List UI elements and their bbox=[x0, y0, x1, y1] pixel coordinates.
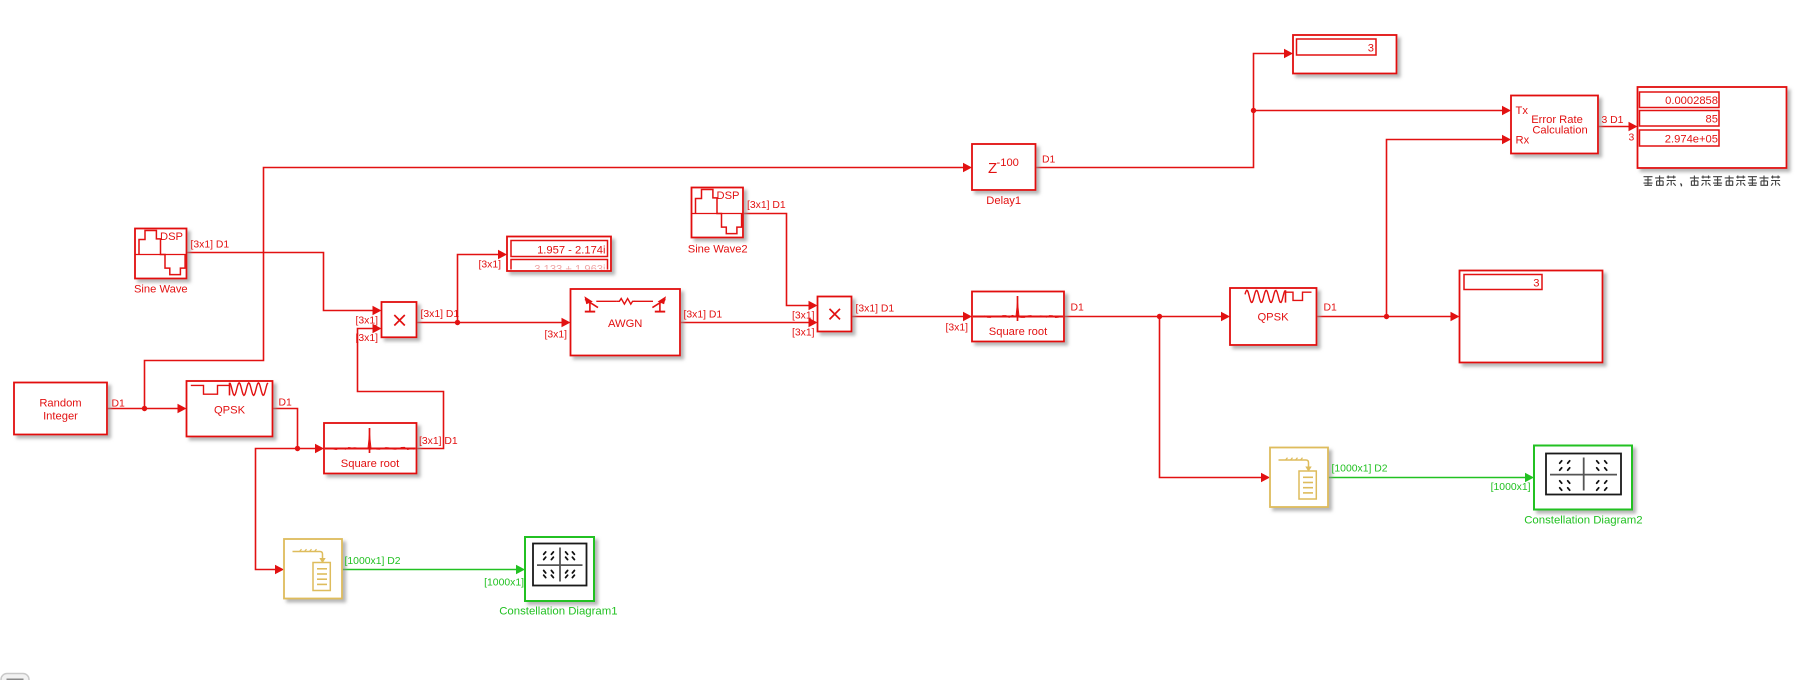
svg-text:[3x1] D1: [3x1] D1 bbox=[419, 436, 458, 447]
svg-text:QPSK: QPSK bbox=[214, 405, 246, 417]
svg-text:Square root: Square root bbox=[341, 458, 400, 470]
svg-text:[3x1]: [3x1] bbox=[792, 327, 815, 338]
svg-text:[3x1] D1: [3x1] D1 bbox=[856, 304, 895, 315]
svg-text:[3x1]: [3x1] bbox=[478, 260, 501, 271]
svg-text:AWGN: AWGN bbox=[608, 318, 642, 330]
svg-text:DSP: DSP bbox=[160, 231, 183, 243]
svg-text:D1: D1 bbox=[1042, 155, 1056, 166]
svg-text:D1: D1 bbox=[279, 398, 293, 409]
svg-text:-100: -100 bbox=[997, 157, 1019, 169]
svg-text:[3x1] D1: [3x1] D1 bbox=[421, 309, 460, 320]
svg-text:[1000x1]: [1000x1] bbox=[484, 578, 524, 589]
svg-text:Constellation Diagram1: Constellation Diagram1 bbox=[499, 605, 617, 617]
svg-text:85: 85 bbox=[1706, 114, 1718, 126]
svg-text:[3x1]: [3x1] bbox=[792, 310, 815, 321]
svg-text:Delay1: Delay1 bbox=[986, 195, 1021, 207]
svg-text:[1000x1] D2: [1000x1] D2 bbox=[345, 556, 401, 567]
svg-text:Sine Wave: Sine Wave bbox=[134, 284, 188, 296]
svg-text:[3x1]: [3x1] bbox=[355, 316, 378, 327]
svg-text:0.0002858: 0.0002858 bbox=[1665, 95, 1718, 107]
svg-text:1.957 - 2.174i: 1.957 - 2.174i bbox=[537, 245, 605, 257]
svg-text:Sine Wave2: Sine Wave2 bbox=[688, 244, 748, 256]
svg-text:D1: D1 bbox=[1071, 303, 1085, 314]
svg-text:2.974e+05: 2.974e+05 bbox=[1665, 134, 1718, 146]
svg-text:D1: D1 bbox=[112, 399, 126, 410]
svg-text:[3x1]: [3x1] bbox=[544, 330, 567, 341]
svg-text:[1000x1]: [1000x1] bbox=[1491, 482, 1531, 493]
svg-text:[3x1] D1: [3x1] D1 bbox=[747, 200, 786, 211]
svg-text:QPSK: QPSK bbox=[1257, 312, 1289, 324]
svg-text:3: 3 bbox=[1533, 278, 1539, 290]
svg-text:D1: D1 bbox=[1324, 303, 1338, 314]
svg-text:Integer: Integer bbox=[43, 411, 78, 423]
svg-text:Rx: Rx bbox=[1516, 135, 1530, 147]
svg-text:Random: Random bbox=[39, 398, 81, 410]
svg-text:3: 3 bbox=[1368, 43, 1374, 55]
svg-text:DSP: DSP bbox=[717, 190, 740, 202]
svg-text:[3x1]: [3x1] bbox=[945, 323, 968, 334]
svg-text:[1000x1] D2: [1000x1] D2 bbox=[1332, 464, 1388, 475]
svg-text:3 D1: 3 D1 bbox=[1602, 115, 1624, 126]
svg-text:3: 3 bbox=[1629, 133, 1635, 144]
svg-text:Calculation: Calculation bbox=[1532, 125, 1587, 137]
svg-text:Square root: Square root bbox=[989, 326, 1048, 338]
svg-text:[3x1] D1: [3x1] D1 bbox=[191, 240, 230, 251]
svg-text:Constellation Diagram2: Constellation Diagram2 bbox=[1524, 515, 1642, 527]
svg-text:[3x1] D1: [3x1] D1 bbox=[684, 310, 723, 321]
svg-text:Tx: Tx bbox=[1516, 105, 1529, 117]
svg-text:[3x1]: [3x1] bbox=[355, 333, 378, 344]
